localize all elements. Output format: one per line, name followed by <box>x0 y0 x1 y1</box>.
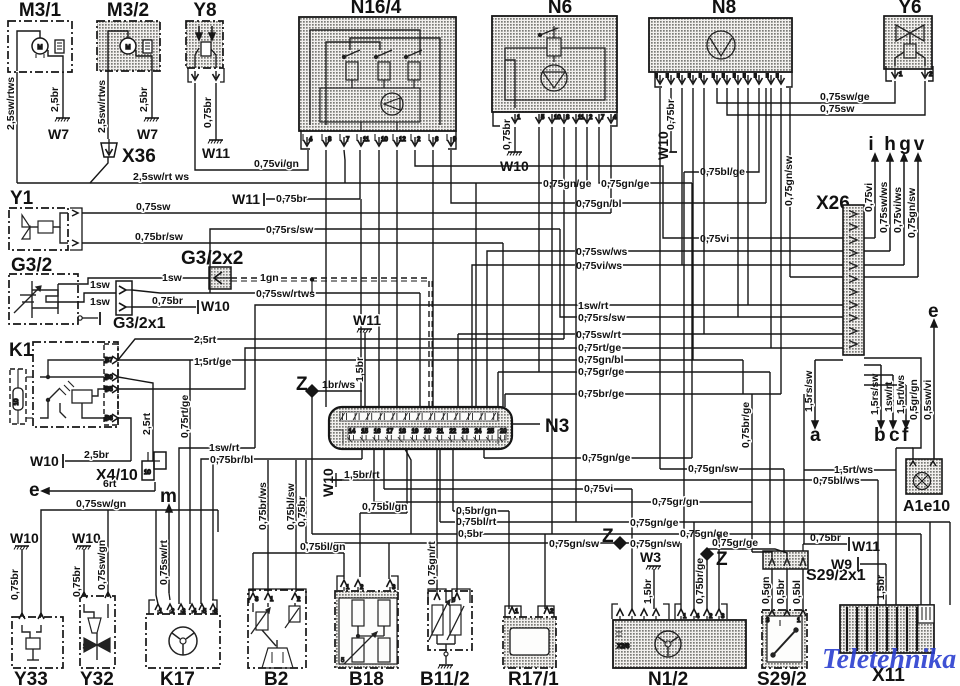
ground W7 (M3/2) <box>151 71 153 118</box>
svg-text:N16/4: N16/4 <box>351 0 402 18</box>
svg-text:0,5gr/gn: 0,5gr/gn <box>908 379 920 420</box>
svg-text:0,75sw/rtws: 0,75sw/rtws <box>256 288 315 300</box>
svg-text:b: b <box>874 425 886 446</box>
svg-text:B11/2: B11/2 <box>420 669 470 686</box>
svg-text:2,5sw/rtws: 2,5sw/rtws <box>5 77 17 130</box>
wire 0,75vi N3 right <box>384 488 632 490</box>
svg-text:2: 2 <box>589 115 593 121</box>
svg-text:M3/1: M3/1 <box>19 0 62 21</box>
wire 0,75sw/ge N8 to Y6 <box>717 81 895 103</box>
svg-text:8: 8 <box>328 137 332 143</box>
pin 3 K17 <box>178 604 184 610</box>
svg-text:W10: W10 <box>10 530 39 546</box>
svg-text:0,5bl: 0,5bl <box>791 580 803 604</box>
svg-text:7: 7 <box>601 115 605 121</box>
svg-text:2,5rt: 2,5rt <box>194 334 217 346</box>
svg-text:2,5br: 2,5br <box>138 87 150 112</box>
svg-text:M: M <box>126 45 131 51</box>
svg-text:3: 3 <box>392 585 396 591</box>
svg-text:G3/2x2: G3/2x2 <box>181 248 243 269</box>
wire N8 pin fan down <box>681 88 683 265</box>
wire 0,75sw/ws h <box>487 251 843 407</box>
svg-text:2,5rt: 2,5rt <box>141 412 153 435</box>
connector bracket N8 <box>655 72 662 87</box>
wire 2,5rt K1 <box>118 339 564 360</box>
svg-text:1gn: 1gn <box>260 272 279 284</box>
wire 1,5rt/ge K1 <box>118 359 743 361</box>
wire 2,5sw/rtws bus <box>17 157 108 183</box>
svg-text:0,75br: 0,75br <box>71 566 83 597</box>
wire 0,75bl/gn lower <box>253 552 344 554</box>
wire 0,75br/ws to B2 <box>267 460 269 592</box>
wire 0,75sw N8 to Y6 <box>727 81 925 115</box>
pin 11 N6 <box>573 117 580 123</box>
svg-text:0,75sw/rt: 0,75sw/rt <box>158 540 170 585</box>
svg-text:1sw/rt: 1sw/rt <box>578 300 609 312</box>
pin 5 N8 <box>701 78 708 84</box>
svg-text:7: 7 <box>346 137 350 143</box>
svg-text:2: 2 <box>417 137 421 143</box>
svg-text:0,75br/ws: 0,75br/ws <box>257 482 269 530</box>
wire 2,5sw/rtws M3/2 to X36 <box>107 71 109 139</box>
wire 0,75bl/rt <box>439 449 441 522</box>
svg-text:0,75sw/gn: 0,75sw/gn <box>76 498 126 510</box>
wire 2,5rt K1 pin30 to X4/10 <box>118 377 153 461</box>
svg-text:19: 19 <box>412 429 419 435</box>
svg-text:1,5rt/ws: 1,5rt/ws <box>895 375 907 414</box>
svg-text:14: 14 <box>349 429 356 435</box>
svg-text:1sw: 1sw <box>90 296 111 308</box>
wire 0,75gn/ge second to X11 <box>551 127 553 534</box>
wire X26 i stub <box>864 237 875 239</box>
svg-text:1: 1 <box>899 72 903 78</box>
svg-text:1,5rt/ge: 1,5rt/ge <box>194 356 232 368</box>
svg-text:1,5br: 1,5br <box>354 357 366 382</box>
svg-text:6rt: 6rt <box>103 478 117 490</box>
svg-text:N1/2: N1/2 <box>648 669 688 686</box>
wire K1 pin86 down <box>118 418 131 461</box>
svg-text:1: 1 <box>683 614 687 620</box>
svg-text:2,5br: 2,5br <box>49 87 61 112</box>
ground W10 (N8) rotated <box>670 88 672 152</box>
svg-text:Y1: Y1 <box>10 188 34 209</box>
svg-text:4: 4 <box>309 137 313 143</box>
wire 0,5br <box>405 449 411 534</box>
svg-text:0,75br: 0,75br <box>202 97 214 128</box>
connector strip K1 <box>104 344 118 425</box>
pin 3 N8 <box>679 78 686 84</box>
wire 0,75gn/sw mid right <box>659 88 661 469</box>
wire 0,75bl/gn N3 to B18 <box>406 449 408 513</box>
wire 0,5br/gn <box>452 449 454 511</box>
svg-text:i: i <box>868 134 873 155</box>
pin 1 N6 <box>512 117 519 123</box>
wire 0,75br/bl K17 pin5 <box>201 459 362 604</box>
wire 0,75gn/sw v <box>789 88 791 277</box>
svg-text:10: 10 <box>144 470 151 476</box>
pin 4 N8 <box>690 78 697 84</box>
svg-text:c: c <box>889 425 900 446</box>
svg-text:2: 2 <box>360 585 364 591</box>
wire 0,75rt/ge to K17 pin4 <box>189 360 191 604</box>
svg-text:23: 23 <box>462 429 469 435</box>
wire 0,75gr/ge <box>497 372 499 407</box>
connector bracket N6 <box>493 112 500 126</box>
svg-text:0,75bl/rt: 0,75bl/rt <box>456 516 497 528</box>
svg-text:12: 12 <box>399 137 406 143</box>
svg-text:2: 2 <box>297 597 301 603</box>
ground W10 (N6 pin1) <box>514 127 516 152</box>
pin 2 K17 <box>167 604 173 610</box>
svg-text:W10: W10 <box>655 131 671 160</box>
wire 1,5rt/ws to A1e10 <box>803 394 805 470</box>
control unit connector N3 <box>329 407 512 449</box>
svg-text:1,5br: 1,5br <box>642 579 654 604</box>
svg-text:W10: W10 <box>30 453 59 469</box>
svg-text:0,75sw: 0,75sw <box>820 103 855 115</box>
svg-text:X36: X36 <box>122 146 156 167</box>
svg-text:0,75sw: 0,75sw <box>136 201 171 213</box>
ground stub G3/2 <box>78 316 82 320</box>
svg-text:1,5rs/sw: 1,5rs/sw <box>869 373 881 415</box>
pin 6 K17 <box>210 604 216 610</box>
pin 9 N8 <box>745 78 752 84</box>
svg-text:1sw/rt: 1sw/rt <box>883 381 895 412</box>
pin 9 N16/4 <box>448 140 455 146</box>
svg-text:2,5sw/rt ws: 2,5sw/rt ws <box>133 171 189 183</box>
pin 10 N6 <box>549 117 556 123</box>
svg-text:16: 16 <box>374 429 381 435</box>
svg-text:W10: W10 <box>201 298 230 314</box>
pin 4 K17 <box>189 604 195 610</box>
svg-text:2,5sw/rtws: 2,5sw/rtws <box>96 80 108 133</box>
pin 10 N8 <box>756 78 763 84</box>
svg-text:1: 1 <box>270 597 274 603</box>
wire 0,75bl/sw to B2 <box>295 460 297 592</box>
svg-text:W11: W11 <box>852 538 880 554</box>
wire 1sw/rt K17 pin3 <box>179 448 255 604</box>
svg-text:Z: Z <box>602 526 614 547</box>
wire 0,75br mid <box>305 460 307 543</box>
svg-text:1sw/rt: 1sw/rt <box>209 442 240 454</box>
svg-text:0,75sw/gn: 0,75sw/gn <box>96 540 108 590</box>
svg-text:N3: N3 <box>545 416 569 437</box>
svg-text:0,5sw/vi: 0,5sw/vi <box>922 380 934 420</box>
wire 0,75sw/rt mid <box>457 334 459 407</box>
svg-text:0,75rs/sw: 0,75rs/sw <box>578 312 626 324</box>
svg-text:1: 1 <box>517 115 521 121</box>
svg-text:22: 22 <box>449 429 456 435</box>
svg-text:g: g <box>899 134 911 155</box>
wire 0,75vi N16/4 pin2 <box>415 150 843 238</box>
wire 1gn dashed down to N3 <box>428 281 430 407</box>
svg-text:0,75gn/bl: 0,75gn/bl <box>576 198 622 210</box>
pin 11 N8 <box>768 78 775 84</box>
ground B11/2 <box>445 656 447 664</box>
svg-text:5: 5 <box>541 115 545 121</box>
wire riser to N3 <box>419 293 421 407</box>
svg-text:Y32: Y32 <box>80 669 114 686</box>
svg-text:0,75gn/ge: 0,75gn/ge <box>630 517 679 529</box>
svg-text:24: 24 <box>475 429 482 435</box>
svg-text:K17: K17 <box>160 669 195 686</box>
svg-text:M3/2: M3/2 <box>107 0 149 21</box>
svg-text:0,75gn/ge: 0,75gn/ge <box>543 178 592 190</box>
wire 0,75sw N16/4 pins down to N3 <box>325 150 327 407</box>
svg-text:W3: W3 <box>640 549 661 565</box>
pin 12 N8 <box>778 78 785 84</box>
wire S29/2x1 pins to S29/2 <box>771 569 773 610</box>
pin 7 N16/4 <box>341 140 348 146</box>
pin 8 N8 <box>735 78 742 84</box>
connector brackets B11/2 <box>428 589 446 603</box>
svg-text:0,75br: 0,75br <box>152 295 183 307</box>
svg-text:3: 3 <box>255 597 259 603</box>
wire 0,75rs/sw <box>210 229 560 293</box>
wire 0,75gr/ge Z3 <box>707 549 787 557</box>
svg-text:Y33: Y33 <box>14 669 48 686</box>
svg-text:R17/1: R17/1 <box>508 669 559 686</box>
svg-text:0,75vi: 0,75vi <box>863 183 875 212</box>
svg-text:2: 2 <box>709 614 713 620</box>
svg-text:m: m <box>160 486 177 507</box>
svg-text:0,75sw/ge: 0,75sw/ge <box>820 91 870 103</box>
svg-text:0,75gn/bl: 0,75gn/bl <box>578 354 624 366</box>
wire 0,75gn/ge N3 right <box>483 449 485 458</box>
svg-text:B2: B2 <box>264 669 288 686</box>
svg-text:0,75gr/ge: 0,75gr/ge <box>578 366 624 378</box>
wire to B11/2 pin2 <box>456 511 458 592</box>
svg-text:0,75rs/sw: 0,75rs/sw <box>266 224 314 236</box>
connector bracket Y1 <box>70 208 82 250</box>
svg-text:W7: W7 <box>137 126 158 142</box>
pin 4 N6 <box>608 117 615 123</box>
svg-text:Teletehnika: Teletehnika <box>822 644 956 675</box>
svg-text:6: 6 <box>435 137 439 143</box>
svg-text:11: 11 <box>363 137 370 143</box>
svg-text:0,75bl/gn: 0,75bl/gn <box>300 541 346 553</box>
wire 0,75sw Y1 <box>82 212 611 214</box>
svg-text:W11: W11 <box>353 312 381 328</box>
pin 12 N16/4 <box>394 140 401 146</box>
wire 0,75vi/gn Y8 to N16/4 <box>195 83 308 170</box>
wire N6 pin11 down <box>575 127 577 522</box>
svg-text:8: 8 <box>566 115 570 121</box>
svg-text:1br/ws: 1br/ws <box>322 379 355 391</box>
svg-text:18: 18 <box>399 429 406 435</box>
svg-text:0,75gn/ge: 0,75gn/ge <box>601 178 650 190</box>
svg-text:0,75gn/sw: 0,75gn/sw <box>630 538 681 550</box>
svg-text:0,75vi/ws: 0,75vi/ws <box>892 187 904 233</box>
pin 7 N8 <box>724 78 731 84</box>
terminal W10 (G3/2x1) <box>132 306 196 308</box>
svg-text:1,5br: 1,5br <box>875 575 887 600</box>
svg-text:0,5br/gn: 0,5br/gn <box>456 505 497 517</box>
connector bracket N16/4 <box>301 131 310 149</box>
svg-text:0,75gn/sw: 0,75gn/sw <box>783 155 795 206</box>
svg-text:h: h <box>884 134 896 155</box>
node Z splice (gr/ge) <box>701 548 713 560</box>
svg-text:W9: W9 <box>831 556 852 572</box>
svg-text:0,75rt/ge: 0,75rt/ge <box>179 395 191 438</box>
wire riser br/ge to gr/gn <box>751 394 753 552</box>
svg-text:K1: K1 <box>9 340 34 361</box>
svg-text:0,75rt/ge: 0,75rt/ge <box>578 342 621 354</box>
svg-text:W10: W10 <box>320 468 336 497</box>
svg-text:0,75br/ge: 0,75br/ge <box>694 558 706 604</box>
wire 0,75bl/ge <box>684 88 759 172</box>
svg-text:0,75gn/sw: 0,75gn/sw <box>688 463 739 475</box>
svg-text:X2/6: X2/6 <box>617 644 630 650</box>
svg-text:Z: Z <box>716 549 728 570</box>
pin 8 N6 <box>561 117 568 123</box>
svg-text:0,75gr/gn: 0,75gr/gn <box>652 496 699 508</box>
pin 1 K17 <box>155 604 161 610</box>
svg-text:25: 25 <box>487 429 494 435</box>
svg-text:3: 3 <box>721 614 725 620</box>
wire 1sw G3/2 upper <box>58 278 209 284</box>
svg-text:0,5br: 0,5br <box>458 528 483 540</box>
svg-text:0,75br/ge: 0,75br/ge <box>740 402 752 448</box>
connector bracket R17/1 <box>505 606 521 617</box>
svg-text:0,75sw/ws: 0,75sw/ws <box>576 246 628 258</box>
pin 2 N8 <box>668 78 675 84</box>
wire 2,5sw/rtws M3/1 <box>16 72 18 183</box>
svg-text:0,75sw/rt: 0,75sw/rt <box>576 329 621 341</box>
connector bracket Y6 <box>886 66 892 81</box>
svg-text:0,75br: 0,75br <box>9 569 21 600</box>
svg-text:0,75br: 0,75br <box>276 193 307 205</box>
svg-text:M: M <box>38 45 43 51</box>
wire 0,75br W11 to N16/4 pin11 <box>359 150 361 199</box>
ground W7 (M3/1) <box>62 72 64 118</box>
svg-text:B18: B18 <box>349 669 384 686</box>
svg-text:20: 20 <box>424 429 431 435</box>
svg-text:2,5br: 2,5br <box>84 449 109 461</box>
pin 6 N16/4 <box>430 140 437 146</box>
svg-text:0,75br/sw: 0,75br/sw <box>135 231 184 243</box>
N3 pin row 1-13 <box>340 412 498 421</box>
wire 0,75gr/gn <box>374 449 752 502</box>
wire 0,75gn/sw Z <box>306 542 614 544</box>
pin 6 N8 <box>714 78 721 84</box>
svg-text:4: 4 <box>696 614 700 620</box>
pin 7 N6 <box>596 117 603 123</box>
pin 11 N16/4 <box>358 140 365 146</box>
svg-text:1sw: 1sw <box>90 279 111 291</box>
svg-text:15: 15 <box>361 429 368 435</box>
wire 0,75sw/rtws from G3/2x1 <box>132 290 420 293</box>
svg-text:0,75br/ge: 0,75br/ge <box>578 388 624 400</box>
svg-text:W11: W11 <box>232 191 260 207</box>
svg-text:0,75vi/gn: 0,75vi/gn <box>254 158 299 170</box>
wire 0,75br/ge <box>504 394 506 407</box>
svg-text:0,75gn/sw: 0,75gn/sw <box>906 187 918 238</box>
wire 0,75br/sw Y1 <box>82 242 503 244</box>
wire 1gn dashed from G3/2x2 <box>231 277 429 279</box>
svg-text:1: 1 <box>346 585 350 591</box>
pin 5 K17 <box>199 604 205 610</box>
svg-text:0,75vi: 0,75vi <box>584 483 613 495</box>
svg-text:0,75gn/rt: 0,75gn/rt <box>426 541 438 585</box>
svg-text:1: 1 <box>515 609 519 615</box>
svg-text:0,75br: 0,75br <box>296 496 308 527</box>
svg-text:1sw: 1sw <box>162 272 183 284</box>
svg-text:0,75gn/sw: 0,75gn/sw <box>549 538 600 550</box>
pin 4 N16/4 <box>304 140 311 146</box>
svg-text:Y8: Y8 <box>193 0 216 21</box>
wire 0,5gr/gn to A1e10 <box>864 358 921 459</box>
connector bracket B2 <box>249 589 306 603</box>
pin 2 N16/4 <box>412 140 419 146</box>
svg-text:0,5br: 0,5br <box>775 579 787 604</box>
wire 0,75gn/bl N16/4 pin9 <box>451 150 766 203</box>
svg-text:0,75br: 0,75br <box>665 99 677 130</box>
svg-text:A1e10: A1e10 <box>903 498 950 515</box>
svg-text:G3/2: G3/2 <box>11 255 52 276</box>
connector bracket B18 <box>337 576 344 590</box>
svg-text:e: e <box>928 301 939 322</box>
wire X4/10 to e <box>154 482 156 491</box>
svg-text:17: 17 <box>386 429 393 435</box>
svg-text:21: 21 <box>437 429 444 435</box>
svg-text:1,5rs/sw: 1,5rs/sw <box>803 370 815 412</box>
wire 1sw G3/2 lower to G3/2x1 <box>58 293 116 302</box>
connector bracket Y8 <box>188 68 192 82</box>
svg-text:0,5gn: 0,5gn <box>760 577 772 604</box>
svg-text:10: 10 <box>381 137 388 143</box>
svg-text:0,75gr/ge: 0,75gr/ge <box>712 537 758 549</box>
svg-text:W11: W11 <box>202 145 230 161</box>
svg-text:0,75bl/ws: 0,75bl/ws <box>813 475 860 487</box>
svg-text:0,75bl/gn: 0,75bl/gn <box>362 501 408 513</box>
wire 0,75sw/gn <box>41 510 156 617</box>
svg-text:0,75sw/ws: 0,75sw/ws <box>878 181 890 233</box>
svg-text:0,75vi/ws: 0,75vi/ws <box>576 260 622 272</box>
wire 0,75gn/ge long to X11 <box>440 521 950 523</box>
svg-text:G3/2x1: G3/2x1 <box>113 315 166 332</box>
svg-text:W7: W7 <box>48 126 69 142</box>
connector brackets N1/2 <box>612 604 618 619</box>
terminal W11 (S29/2x1) <box>802 544 804 551</box>
ground W11 (Y8) <box>215 83 217 140</box>
wire 0,75gn/rt to B11/2 <box>436 449 438 592</box>
wire 0,75gn/ge N6 pin2 <box>476 127 587 183</box>
wire riser N1/2 pin3 <box>718 534 720 609</box>
fuse holder K1 <box>10 369 26 424</box>
svg-text:S29/2: S29/2 <box>757 669 807 686</box>
svg-text:v: v <box>914 134 925 155</box>
svg-text:0,75br: 0,75br <box>501 119 513 150</box>
svg-text:0,75br/bl: 0,75br/bl <box>210 454 253 466</box>
svg-text:10: 10 <box>14 398 20 405</box>
svg-text:N8: N8 <box>712 0 736 18</box>
pin 2 N6 <box>584 117 591 123</box>
pin 1 N8 <box>657 78 664 84</box>
wire Y32 pin2 riser <box>107 510 109 596</box>
wire 0,75rt/ge K1 pin85 <box>118 348 843 389</box>
svg-text:e: e <box>29 480 40 501</box>
pin 5 N6 <box>536 117 543 123</box>
wire 0,75gn/ge N6 pin7 <box>599 127 692 183</box>
pin 8 N16/4 <box>323 140 330 146</box>
connector bracket K17 <box>149 600 155 614</box>
svg-text:0,75gn/ge: 0,75gn/ge <box>582 452 631 464</box>
wire 0,75vi/ws g <box>472 265 843 407</box>
pin 10 N16/4 <box>376 140 383 146</box>
